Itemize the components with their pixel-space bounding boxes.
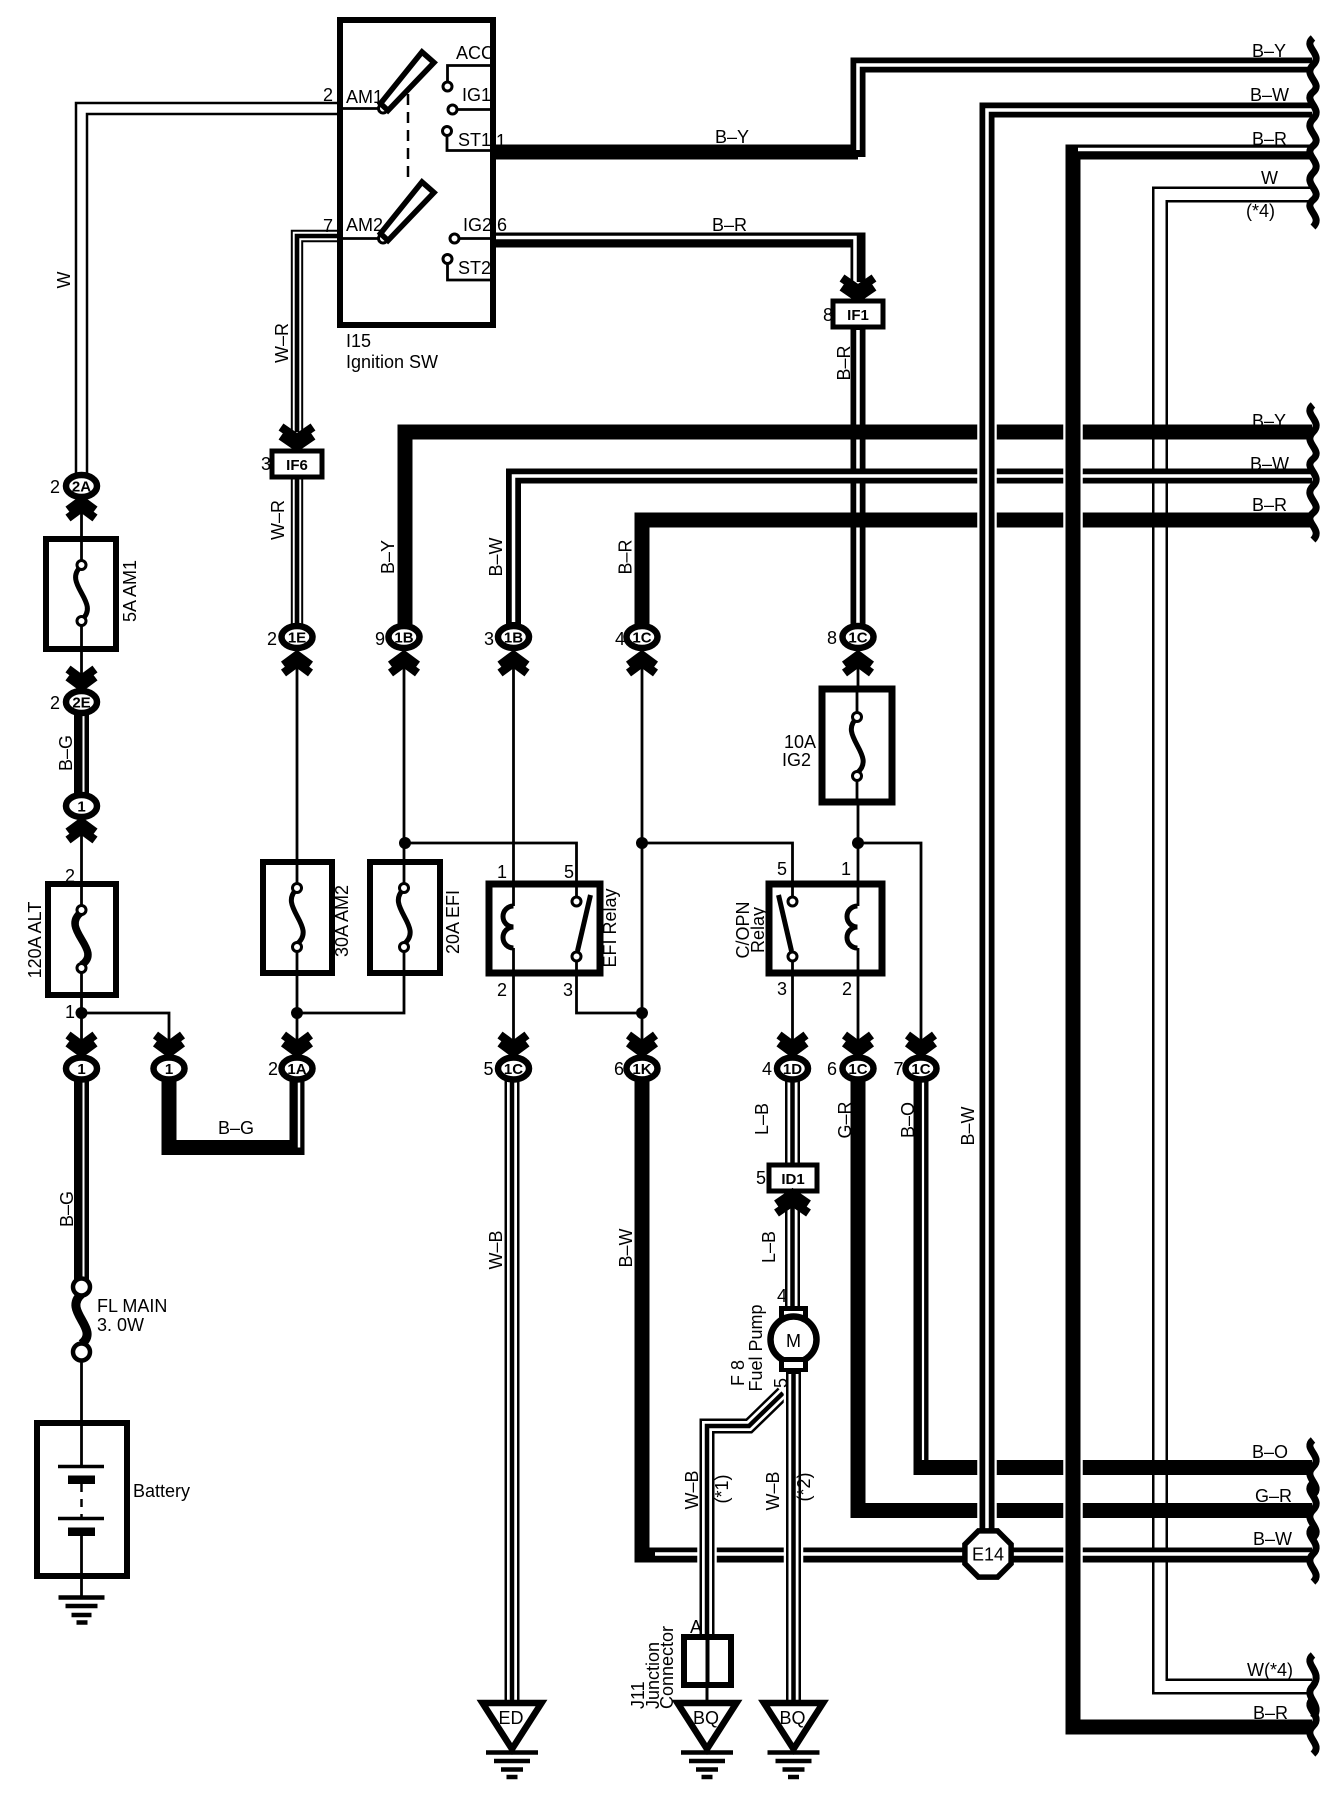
svg-text:ACC: ACC	[456, 43, 494, 63]
svg-text:1A: 1A	[287, 1061, 306, 1078]
svg-text:2: 2	[50, 477, 60, 497]
wire G-R from 1C(6) to continuation right	[858, 1078, 1312, 1511]
svg-text:10A: 10A	[784, 732, 816, 752]
fusible link FL MAIN 3.0W	[73, 1279, 90, 1424]
svg-text:AM2: AM2	[346, 215, 383, 235]
junction node at 10A IG2 output	[852, 837, 864, 849]
ignition switch mechanical link dashed	[407, 94, 410, 177]
label IG2	[463, 215, 492, 235]
splice E14 octagon	[965, 1531, 1011, 1577]
pin 1 label 120A ALT bottom	[65, 1002, 75, 1022]
wire L-B sheathed from ID1 to fuel pump pin 4	[785, 1191, 800, 1310]
wire thin column from 2A through 5A AM1 fuse to 2E	[80, 497, 83, 692]
svg-text:W–B: W–B	[682, 1470, 702, 1509]
svg-text:BQ: BQ	[693, 1708, 719, 1728]
svg-text:120A ALT: 120A ALT	[25, 902, 45, 979]
label IG1	[462, 85, 491, 105]
connector 1B(3)	[498, 626, 529, 648]
wire label B-Y mid right	[1252, 411, 1286, 431]
pin 7 label 1C(7)	[893, 1059, 903, 1079]
wire B-W long vertical from top right to E14	[987, 110, 1312, 1535]
wire from 1C(4) down through junctions to 1K	[641, 650, 644, 1056]
pin 2 label 1A	[268, 1059, 278, 1079]
wire thin from 1B(9) to 20A EFI fuse	[403, 650, 406, 865]
svg-text:5: 5	[771, 1378, 791, 1388]
label Battery	[133, 1481, 190, 1501]
svg-text:2E: 2E	[72, 695, 90, 712]
connector 2A	[66, 475, 97, 497]
svg-text:1: 1	[841, 859, 851, 879]
wire B-G from connector 1 to FL MAIN	[82, 1078, 84, 1280]
EFI relay coil	[503, 906, 514, 948]
arrow into 2A	[68, 500, 95, 518]
wire B-Y from ignition ST1	[492, 145, 858, 160]
svg-text:20A EFI: 20A EFI	[443, 890, 463, 954]
svg-text:5: 5	[777, 859, 787, 879]
svg-text:B–R: B–R	[712, 215, 747, 235]
ground triangle BQ right	[764, 1703, 823, 1749]
svg-text:1C: 1C	[911, 1061, 930, 1078]
fuse 20A EFI	[370, 862, 440, 973]
svg-text:4: 4	[615, 629, 625, 649]
ground triangle BQ left	[678, 1703, 737, 1749]
fuel pump motor M	[771, 1306, 817, 1372]
svg-text:8: 8	[823, 305, 833, 325]
label EFI Relay rotated	[600, 888, 620, 967]
ignition switch ST1 contact	[443, 127, 494, 151]
svg-text:B–Y: B–Y	[1252, 411, 1286, 431]
wire label W(*4) bottom right	[1247, 1660, 1293, 1680]
pin 4 label 1C	[615, 629, 625, 649]
svg-text:L–B: L–B	[759, 1231, 779, 1263]
svg-text:2: 2	[267, 629, 277, 649]
arrow into 1C(6)	[845, 1035, 872, 1053]
svg-text:L–B: L–B	[752, 1103, 772, 1135]
arrow into IF1	[842, 278, 874, 298]
wire B-O from 1C(7) to continuation right	[921, 1078, 1312, 1468]
wire label L-B rotated upper	[752, 1103, 772, 1135]
svg-text:7: 7	[323, 216, 333, 236]
wire label W-B rotated (*1)	[682, 1470, 702, 1509]
svg-text:2: 2	[323, 85, 333, 105]
ignition switch ACC contact	[443, 66, 493, 92]
svg-text:A: A	[690, 1617, 702, 1637]
connector 1C(4)	[627, 626, 658, 648]
connector 1E	[282, 626, 313, 648]
wire from 1C(8) through 10A IG2 fuse to junction	[857, 650, 860, 906]
svg-text:E14: E14	[972, 1545, 1004, 1565]
wire label B-W rotated right column	[958, 1106, 978, 1145]
label AM1	[346, 87, 383, 107]
svg-text:AM1: AM1	[346, 87, 383, 107]
arrow into connector 1 mid	[68, 822, 95, 840]
svg-text:Relay: Relay	[748, 907, 768, 953]
wire label B-W rotated 1K column	[616, 1228, 636, 1267]
svg-text:W–B: W–B	[763, 1471, 783, 1510]
svg-text:1: 1	[77, 799, 85, 816]
arrow into connector 1 second	[156, 1035, 183, 1053]
fuse 5A AM1	[46, 539, 116, 649]
wire B-R from 1C(4) to continuation right	[642, 520, 1312, 626]
svg-text:2: 2	[497, 980, 507, 1000]
wire C/OPN relay pin 3 down to connector 1D	[791, 955, 794, 1056]
svg-text:EFI Relay: EFI Relay	[600, 888, 620, 967]
pin 2 label AM1	[323, 85, 333, 105]
svg-text:FL MAIN: FL MAIN	[97, 1296, 167, 1316]
svg-text:5: 5	[483, 1059, 493, 1079]
svg-text:8: 8	[827, 628, 837, 648]
svg-text:Fuel Pump: Fuel Pump	[746, 1304, 766, 1391]
svg-text:1E: 1E	[288, 630, 306, 647]
svg-text:ID1: ID1	[781, 1171, 804, 1188]
svg-text:(*1): (*1)	[712, 1474, 732, 1503]
wire label W-B rotated (*2)	[763, 1471, 783, 1510]
svg-text:IF1: IF1	[847, 307, 869, 324]
pin 5 label ID1	[756, 1168, 766, 1188]
label 20A EFI rotated	[443, 890, 463, 954]
svg-text:3. 0W: 3. 0W	[97, 1315, 144, 1335]
wire W-B(*1) sheathed from fuel pump pin 5 to junction connector J11	[707, 1391, 785, 1640]
connector 1C(8)	[843, 626, 874, 648]
svg-text:1B: 1B	[394, 630, 413, 647]
pin 3 label IF6	[261, 454, 271, 474]
pin 3 label 1B	[484, 629, 494, 649]
svg-text:B–Y: B–Y	[378, 540, 398, 574]
pin 2 label 2E	[50, 693, 60, 713]
svg-text:B–O: B–O	[898, 1102, 918, 1138]
ground symbol below BQ left	[681, 1753, 733, 1778]
svg-text:W–R: W–R	[268, 500, 288, 540]
wire label B-R rotated below IF1	[834, 345, 854, 380]
svg-text:Battery: Battery	[133, 1481, 190, 1501]
label FL MAIN 3.0W	[97, 1296, 167, 1335]
pin 1 label ST1	[496, 131, 506, 151]
label ID1	[781, 1171, 804, 1188]
pin 6 label 1K	[614, 1059, 624, 1079]
svg-text:IG2: IG2	[463, 215, 492, 235]
continuation squiggle middle group	[1310, 405, 1316, 540]
arrow into 1C(8)	[845, 655, 872, 673]
continuation squiggle W(*4) bottom	[1310, 1655, 1316, 1718]
svg-text:1C: 1C	[632, 630, 651, 647]
ignition switch IG2 contact	[450, 234, 493, 243]
svg-text:6: 6	[827, 1059, 837, 1079]
svg-text:I15: I15	[346, 331, 371, 351]
svg-text:B–W: B–W	[1253, 1529, 1292, 1549]
pin 9 label 1B	[375, 629, 385, 649]
connector 1C(7)	[906, 1058, 937, 1080]
wire EFI relay pin 3 to junction and 1K	[577, 955, 643, 1013]
wire label B-R bottom right	[1253, 1703, 1288, 1723]
junction node at 20A EFI feed	[399, 837, 411, 849]
svg-text:5: 5	[756, 1168, 766, 1188]
svg-text:4: 4	[777, 1286, 787, 1306]
wire W hollow from AM1 pin 2 to connector 2A	[82, 109, 341, 475]
label I15 Ignition SW	[346, 331, 438, 372]
svg-text:6: 6	[497, 215, 507, 235]
svg-text:1: 1	[497, 862, 507, 882]
battery cell symbol	[58, 1423, 104, 1598]
svg-text:Ignition SW: Ignition SW	[346, 352, 438, 372]
pin 5 label fuel pump rotated	[771, 1378, 791, 1388]
fuse 10A IG2	[822, 689, 892, 802]
wire label (*1) rotated	[712, 1474, 732, 1503]
wire B-R long vertical from top right to bottom continuation	[1073, 150, 1312, 1728]
connector 1 mid	[66, 795, 97, 817]
junction node at 1C(4) column	[636, 837, 648, 849]
wire B-W from 1B(3) to continuation right	[514, 476, 1313, 626]
wire junction under fuses to connector 1A	[297, 973, 404, 1013]
svg-text:3: 3	[777, 979, 787, 999]
label 10A IG2 fuse	[782, 732, 816, 770]
wire W(*4) hollow continuation right side	[1160, 195, 1312, 1687]
wire label B-W rotated mid	[486, 537, 506, 576]
label IF6	[286, 457, 308, 474]
wire label G-R rotated	[835, 1101, 855, 1138]
svg-text:F 8: F 8	[728, 1360, 748, 1386]
label ACC	[456, 43, 494, 63]
svg-text:5: 5	[564, 862, 574, 882]
connector 1C(6)	[843, 1058, 874, 1080]
svg-text:B–W: B–W	[1250, 85, 1289, 105]
svg-text:(*4): (*4)	[1246, 201, 1275, 221]
fuse 120A ALT	[48, 884, 116, 995]
svg-text:B–R: B–R	[1253, 1703, 1288, 1723]
ground symbol below ED	[486, 1753, 538, 1778]
wire label B-Y top right	[1252, 41, 1286, 61]
wire label G-R bottom right	[1255, 1486, 1292, 1506]
svg-text:B–W: B–W	[486, 537, 506, 576]
wire thin from connector 1 through 120A ALT fuse to node 1	[80, 818, 83, 1056]
wire label (*4) top right	[1246, 201, 1275, 221]
continuation squiggle G-R	[1310, 1483, 1316, 1538]
connector IF6	[272, 451, 322, 477]
arrow into connector 1 left	[68, 1035, 95, 1053]
svg-text:1: 1	[65, 1002, 75, 1022]
pin 2 label C/OPN relay	[842, 979, 852, 999]
connector 1D	[777, 1058, 808, 1080]
svg-text:B–O: B–O	[1252, 1442, 1288, 1462]
ignition switch AM2 contact and lever	[340, 182, 434, 243]
connector 2E	[66, 691, 97, 713]
svg-text:1B: 1B	[504, 630, 523, 647]
svg-text:G–R: G–R	[835, 1101, 855, 1138]
label 5A AM1 rotated	[120, 560, 140, 622]
svg-text:ST2: ST2	[458, 258, 491, 278]
wire label B-Y at ST1	[715, 127, 749, 147]
connector 1K	[627, 1058, 658, 1080]
pin 1 label EFI relay	[497, 862, 507, 882]
svg-text:1: 1	[77, 1061, 85, 1078]
svg-text:1: 1	[165, 1061, 173, 1078]
pin A label J11	[690, 1617, 702, 1637]
svg-text:W(*4): W(*4)	[1247, 1660, 1293, 1680]
wire label B-W mid right	[1250, 454, 1289, 474]
svg-text:6: 6	[614, 1059, 624, 1079]
continuation squiggle top group	[1310, 38, 1316, 227]
wire label B-R rotated mid	[616, 539, 636, 574]
svg-text:9: 9	[375, 629, 385, 649]
continuation squiggle B-O	[1310, 1440, 1316, 1495]
wire B-Y continuation top right	[858, 65, 1312, 157]
wire B-R from ignition IG2 to IF1	[492, 238, 858, 283]
pin 8 label IF1	[823, 305, 833, 325]
wire branch y843 to connector 1C(7)	[858, 843, 921, 1056]
wire label W-B rotated ED column	[486, 1230, 506, 1269]
connector 1A	[282, 1058, 313, 1080]
pin 4 label 1D	[762, 1059, 772, 1079]
arrow into 1K	[629, 1035, 656, 1053]
wire label W rotated left column	[54, 272, 74, 289]
svg-text:B–G: B–G	[56, 735, 76, 771]
svg-text:2: 2	[268, 1059, 278, 1079]
wire thin from 1E to 30A AM2 fuse and on to junction	[296, 650, 299, 1056]
pin 6 label 1C(6)	[827, 1059, 837, 1079]
ignition switch I15 box	[340, 20, 493, 325]
svg-text:IG1: IG1	[462, 85, 491, 105]
ground below battery	[59, 1598, 105, 1623]
svg-text:B–W: B–W	[616, 1228, 636, 1267]
arrow into ID1	[777, 1193, 809, 1213]
connector 1 left bottom	[66, 1058, 97, 1080]
pin 5 label 1C(5)	[483, 1059, 493, 1079]
arrow into 1D	[779, 1035, 806, 1053]
label IF1	[847, 307, 869, 324]
pin 5 label C/OPN relay	[777, 859, 787, 879]
wire label W top right	[1261, 168, 1278, 188]
svg-text:Connector: Connector	[657, 1626, 677, 1709]
svg-text:W: W	[1261, 168, 1278, 188]
svg-text:1C: 1C	[848, 1061, 867, 1078]
arrow into 1C(4)	[629, 655, 656, 673]
svg-text:B–R: B–R	[1252, 129, 1287, 149]
wire W-B(*2) sheathed from fuel pump to ground BQ	[784, 1372, 804, 1706]
C/OPN relay coil	[847, 906, 857, 948]
ignition switch IG1 contact	[448, 105, 493, 114]
connector 1 second bottom	[154, 1058, 185, 1080]
junction node EFI relay pin3 to 1K	[636, 1007, 648, 1019]
relay C/OPN Relay box	[769, 884, 882, 973]
pin 2 label 120A ALT top	[65, 866, 75, 886]
wire 10A IG2 to C/OPN relay pin 1 coil	[857, 948, 860, 1056]
svg-text:B–Y: B–Y	[715, 127, 749, 147]
label AM2	[346, 215, 383, 235]
wire label B-G rotated upper	[56, 735, 76, 771]
svg-text:2: 2	[842, 979, 852, 999]
svg-text:W–R: W–R	[272, 323, 292, 363]
svg-text:4: 4	[762, 1059, 772, 1079]
connector IF1	[833, 301, 883, 327]
wire branch y843 to C/OPN relay pin 5	[642, 843, 793, 897]
svg-text:B–Y: B–Y	[1252, 41, 1286, 61]
svg-text:1D: 1D	[783, 1061, 802, 1078]
svg-text:3: 3	[563, 980, 573, 1000]
pin 2 label EFI relay	[497, 980, 507, 1000]
ignition switch ST2 contact	[443, 255, 493, 281]
svg-text:IF6: IF6	[286, 457, 308, 474]
label 30A AM2 rotated	[332, 885, 352, 957]
ground symbol below BQ right	[768, 1753, 820, 1778]
arrow into 1B(3)	[500, 655, 527, 673]
connector 1B(9)	[389, 626, 420, 648]
svg-text:1C: 1C	[848, 630, 867, 647]
svg-text:B–G: B–G	[218, 1118, 254, 1138]
wire label L-B rotated lower	[759, 1231, 779, 1263]
pin 8 label 1C	[827, 628, 837, 648]
pin 2 label 1E	[267, 629, 277, 649]
pin 5 label EFI relay	[564, 862, 574, 882]
svg-text:3: 3	[261, 454, 271, 474]
wire label B-O bottom right	[1252, 1442, 1288, 1462]
label J11 Junction Connector rotated	[628, 1626, 677, 1709]
wire B-R from IF1 down to connector 1C(8)	[851, 475, 866, 626]
svg-text:BQ: BQ	[779, 1708, 805, 1728]
svg-text:1C: 1C	[504, 1061, 523, 1078]
svg-text:W: W	[54, 272, 74, 289]
svg-text:1K: 1K	[632, 1061, 651, 1078]
wire label B-R mid right	[1252, 495, 1287, 515]
wire W-R hollow from AM2 pin 7 down to IF6	[297, 236, 340, 432]
continuation squiggle B-R bottom	[1310, 1699, 1316, 1754]
fuse 30A AM2	[263, 862, 332, 973]
wire label B-W top right	[1250, 85, 1289, 105]
pin 4 label fuel pump	[777, 1286, 787, 1306]
wire B-Y from 1B(9) to continuation right	[405, 432, 1312, 626]
svg-text:2A: 2A	[72, 479, 91, 496]
svg-text:ST1: ST1	[458, 130, 491, 150]
pin 6 label IG2	[497, 215, 507, 235]
wire label B-Y rotated mid	[378, 540, 398, 574]
wire B-G loop from connector 1 to connector 1A	[169, 1078, 299, 1148]
svg-text:2: 2	[50, 693, 60, 713]
connector ID1	[769, 1165, 817, 1191]
pin 1 label C/OPN relay	[841, 859, 851, 879]
ignition switch AM1 contact and lever	[340, 52, 434, 113]
label ST1	[458, 130, 491, 150]
relay EFI Relay box	[489, 884, 600, 973]
wire W-B sheathed from 1C(5) to ground ED	[505, 1078, 520, 1706]
junction node 1 below 120A ALT	[76, 1007, 88, 1019]
wire label B-G horizontal	[218, 1118, 254, 1138]
ground triangle ED	[483, 1703, 542, 1749]
junction connector J11	[684, 1637, 731, 1706]
continuation squiggle B-W bottom	[1310, 1527, 1316, 1582]
svg-text:B–G: B–G	[57, 1191, 77, 1227]
junction node below 30A AM2	[291, 1007, 303, 1019]
EFI relay switch	[572, 895, 591, 961]
svg-text:ED: ED	[498, 1708, 523, 1728]
svg-text:B–R: B–R	[1252, 495, 1287, 515]
wire label W-R rotated below IF6	[268, 500, 288, 540]
svg-text:G–R: G–R	[1255, 1486, 1292, 1506]
label ST2	[458, 258, 491, 278]
pin 3 label EFI relay	[563, 980, 573, 1000]
svg-text:B–W: B–W	[1250, 454, 1289, 474]
svg-text:2: 2	[65, 866, 75, 886]
wire W-R hollow from IF6 down to connector 1E	[291, 476, 303, 626]
label C/OPN Relay rotated	[733, 901, 768, 958]
svg-text:B–R: B–R	[616, 539, 636, 574]
wire label (*2) rotated	[794, 1472, 814, 1501]
pin 3 label C/OPN relay	[777, 979, 787, 999]
C/OPN relay switch	[779, 895, 798, 961]
wire node 1 branch to second connector 1	[82, 1013, 170, 1056]
svg-text:M: M	[786, 1331, 801, 1351]
wire label W-R rotated above IF6	[272, 323, 292, 363]
svg-text:B–R: B–R	[834, 345, 854, 380]
wire label B-G rotated lower	[57, 1191, 77, 1227]
svg-text:W–B: W–B	[486, 1230, 506, 1269]
